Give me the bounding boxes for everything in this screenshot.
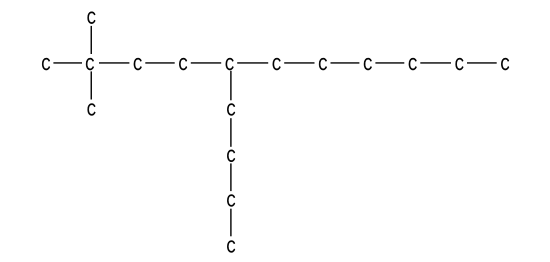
bond C8-C9 xyxy=(375,62,404,64)
bond C4-C5 xyxy=(191,62,221,64)
bond C5-C5a (vertical) xyxy=(230,71,232,101)
atom C5 (main chain, branch point) xyxy=(226,58,234,70)
atom C8 (main chain) xyxy=(364,58,372,70)
atom C2b (methyl below C2) xyxy=(88,103,96,115)
atom C2a (methyl above C2) xyxy=(88,12,96,24)
bond C5-C6 xyxy=(237,62,268,64)
atom C2 (main chain, quaternary carbon) xyxy=(86,58,94,70)
bond C6-C7 xyxy=(284,62,314,64)
atom C6 (main chain) xyxy=(273,58,281,70)
atom C5a (side chain below C5) xyxy=(227,103,235,115)
atom C10 (main chain) xyxy=(456,58,464,70)
bond C5a-C5b (vertical) xyxy=(230,118,232,147)
bond C1-C2 xyxy=(53,62,82,64)
bond C2-C2b (vertical) xyxy=(90,71,92,99)
atom C7 (main chain) xyxy=(319,58,327,70)
atom C3 (main chain) xyxy=(134,58,142,70)
bond C2a-C2 (vertical) xyxy=(90,26,92,54)
atom C1 (main chain, leftmost) xyxy=(42,58,50,70)
atom C5c (side chain) xyxy=(227,194,235,206)
atom C9 (main chain) xyxy=(409,58,417,70)
bond C9-C10 xyxy=(420,62,451,64)
bond C2-C3 xyxy=(99,62,129,64)
atom C11 (main chain, rightmost) xyxy=(501,58,509,70)
bond C7-C8 xyxy=(331,62,360,64)
atom C5b (side chain) xyxy=(227,150,235,162)
bond C3-C4 xyxy=(145,62,174,64)
atom C4 (main chain) xyxy=(179,58,187,70)
bond C10-C11 xyxy=(467,62,497,64)
bond C5c-C5d (vertical) xyxy=(230,209,232,237)
bond C5b-C5c (vertical) xyxy=(230,163,232,191)
atom C5d (side chain, terminal) xyxy=(227,240,235,252)
